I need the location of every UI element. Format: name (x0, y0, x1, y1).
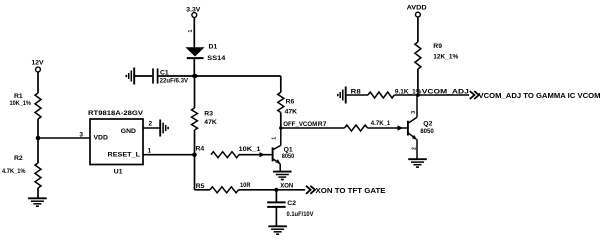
svg-text:OFF_VCOM: OFF_VCOM (283, 121, 317, 128)
svg-text:R9: R9 (433, 43, 442, 50)
svg-text:R1: R1 (14, 93, 23, 100)
svg-text:R4: R4 (196, 146, 205, 153)
svg-text:R6: R6 (286, 98, 295, 105)
svg-text:8050: 8050 (282, 153, 295, 160)
svg-text:R7: R7 (318, 121, 327, 128)
svg-text:GND: GND (121, 128, 136, 135)
svg-text:RT9818A-28GV: RT9818A-28GV (88, 110, 144, 117)
svg-text:2: 2 (412, 147, 418, 150)
svg-text:3: 3 (79, 131, 83, 138)
svg-text:47K: 47K (204, 119, 217, 126)
svg-text:1: 1 (272, 137, 278, 140)
svg-text:47K: 47K (285, 109, 298, 116)
svg-text:VCOM_ADJ: VCOM_ADJ (422, 88, 469, 95)
svg-text:SS14: SS14 (207, 55, 225, 62)
svg-text:10K_1: 10K_1 (239, 146, 261, 153)
svg-text:10R: 10R (240, 182, 251, 189)
svg-text:4.7K_1: 4.7K_1 (371, 120, 391, 127)
svg-text:2: 2 (149, 121, 153, 128)
svg-text:R2: R2 (14, 155, 23, 162)
svg-text:AVDD: AVDD (407, 4, 427, 11)
svg-text:R8: R8 (351, 88, 361, 95)
svg-text:10K_1%: 10K_1% (10, 100, 32, 107)
svg-text:22uF/6.3V: 22uF/6.3V (160, 78, 189, 85)
svg-text:12K_1%: 12K_1% (433, 53, 458, 60)
svg-text:3: 3 (411, 111, 417, 114)
svg-text:4.7K_1%: 4.7K_1% (2, 168, 26, 175)
svg-text:R3: R3 (204, 111, 213, 118)
svg-text:8050: 8050 (420, 128, 434, 135)
svg-text:12V: 12V (31, 60, 44, 67)
svg-text:9.1K_1%: 9.1K_1% (395, 88, 422, 95)
svg-text:C2: C2 (287, 200, 296, 207)
svg-text:VDD: VDD (94, 135, 108, 142)
svg-text:D1: D1 (209, 43, 218, 50)
svg-text:1: 1 (188, 30, 194, 33)
svg-text:XON TO TFT GATE: XON TO TFT GATE (316, 188, 386, 195)
svg-text:XON: XON (280, 182, 293, 189)
svg-text:0.1uF/10V: 0.1uF/10V (287, 211, 314, 218)
svg-text:RESET_L: RESET_L (108, 152, 141, 159)
svg-text:R5: R5 (196, 183, 205, 190)
svg-text:VCOM_ADJ TO GAMMA IC VCOM: VCOM_ADJ TO GAMMA IC VCOM (479, 93, 601, 100)
svg-text:C1: C1 (160, 70, 169, 77)
svg-text:1: 1 (148, 147, 152, 154)
svg-text:U1: U1 (114, 169, 123, 176)
svg-text:Q2: Q2 (423, 121, 432, 128)
